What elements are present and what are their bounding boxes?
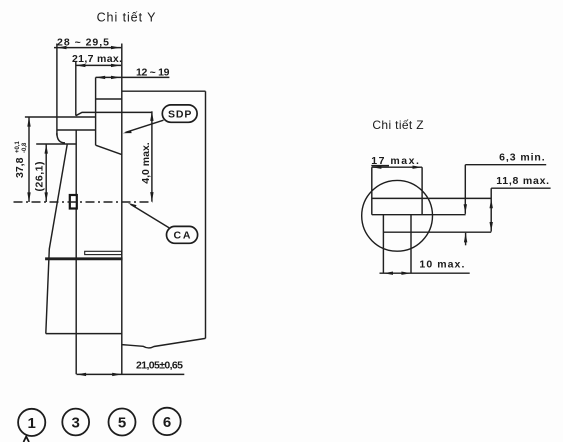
arrow up 6,3 — [464, 233, 467, 243]
small mark below circle 1 — [24, 437, 30, 442]
cap top line — [372, 197, 491, 199]
balloon circle 1 — [18, 409, 45, 436]
dimension (26,1) line — [45, 144, 47, 202]
dimension 6,3 lower tick — [465, 233, 467, 246]
arrow left 17 — [372, 166, 382, 169]
dimension 4,0 max line — [151, 111, 153, 201]
dimension 6,3 vertical line — [464, 165, 466, 214]
column top — [96, 98, 122, 100]
column left edge — [95, 77, 97, 145]
arrow up 4,0 — [150, 111, 153, 121]
extension line left 17 / cap left edge — [371, 167, 373, 215]
dome plane extension line — [36, 143, 76, 145]
cap bottom line — [372, 214, 466, 216]
plate top edge — [122, 90, 206, 92]
arrow left 12~19 — [96, 76, 106, 79]
centerline — [14, 201, 153, 203]
plate bottom edge — [122, 338, 206, 348]
dimension 6,3 shelf line — [465, 164, 546, 166]
arrow down (26,1) — [45, 192, 48, 202]
column taper — [96, 145, 122, 154]
dimension 21,7 max line — [76, 64, 122, 66]
SDP plane line with chamfer — [76, 112, 152, 115]
arrow down 4,0 — [150, 192, 153, 202]
arrow right 21,05 — [112, 373, 122, 376]
thick line — [45, 257, 123, 260]
svg-text:3: 3 — [72, 415, 80, 432]
CA leader line — [131, 204, 170, 228]
extension line 21,7 left — [75, 62, 77, 116]
arrow right 21,7 — [111, 64, 121, 67]
SDP leader line — [126, 120, 164, 132]
lower reference line — [383, 231, 491, 233]
balloon circle 6 — [153, 408, 180, 435]
arrow down 6,3 — [464, 204, 467, 214]
arrow up 11,8 — [490, 199, 493, 209]
arrow left 21,05 — [77, 373, 87, 376]
svg-text:12 ~ 19: 12 ~ 19 — [136, 66, 170, 78]
pin column left edge — [382, 215, 384, 274]
dimension 10 max line — [380, 272, 470, 274]
dimension (26,1) text rotated — [34, 162, 46, 192]
balloon circle 3 — [62, 409, 89, 436]
svg-text:5: 5 — [118, 415, 126, 432]
svg-text:SDP: SDP — [168, 108, 192, 120]
CA leader arrowhead — [128, 203, 137, 208]
svg-text:11,8 max.: 11,8 max. — [496, 175, 549, 187]
svg-text:(26,1): (26,1) — [34, 162, 46, 192]
extension line right 17 / cap right edge — [421, 167, 423, 215]
thin spring rectangle — [85, 251, 122, 254]
bulb dome arc — [57, 133, 65, 143]
dimension 11,8 vertical line — [490, 188, 492, 231]
ledge top line — [25, 116, 96, 118]
svg-text:37,8: 37,8 — [14, 157, 26, 178]
svg-text:6: 6 — [163, 414, 171, 431]
inner vertical body edge — [75, 130, 77, 374]
svg-text:-0,8: -0,8 — [22, 142, 28, 153]
svg-text:Chi tiết Y: Chi tiết Y — [97, 11, 157, 25]
dimension 28~29,5 line — [54, 47, 121, 49]
arrow right 10 — [401, 272, 411, 275]
SDP leader arrowhead — [123, 130, 132, 133]
arrow right 28~29,5 — [111, 46, 121, 49]
svg-text:6,3 min.: 6,3 min. — [499, 151, 545, 163]
arrow left 21,7 — [76, 64, 86, 67]
arrow left 10 — [383, 272, 393, 275]
svg-text:21,05±0,65: 21,05±0,65 — [136, 360, 183, 372]
svg-text:1: 1 — [28, 415, 36, 432]
dimension 37,8 line — [28, 117, 30, 202]
dimension 11,8 shelf line — [491, 187, 550, 189]
dimension 21,05 line — [77, 373, 185, 375]
dimension 12~19 line — [96, 76, 170, 78]
arrow right 12~19 — [111, 76, 121, 79]
plate right edge — [205, 91, 207, 338]
arrow up (26,1) — [45, 144, 48, 154]
extension line right / plate left edge — [121, 44, 123, 375]
pin rectangle — [70, 195, 77, 209]
svg-text:Chi tiết Z: Chi tiết Z — [372, 118, 423, 132]
svg-text:21,7 max.: 21,7 max. — [72, 53, 122, 65]
ledge bottom line — [57, 129, 96, 131]
svg-text:10 max.: 10 max. — [419, 259, 464, 271]
skirt outer edge — [46, 145, 67, 334]
SDP oval — [162, 105, 197, 122]
arrow down 37,8 — [27, 192, 30, 202]
tube circle — [362, 180, 433, 251]
dimension 37,8 text rotated — [14, 140, 28, 178]
extension line left 28~29,5 / bulb edge — [56, 44, 58, 136]
arrow down 11,8 — [490, 222, 493, 232]
balloon circle 5 — [109, 409, 136, 436]
svg-text:+0,1: +0,1 — [15, 140, 21, 153]
arrow up 37,8 — [27, 117, 30, 127]
dimension 17 max line — [372, 166, 422, 168]
underline under 17 — [371, 165, 389, 167]
pin column right edge — [410, 215, 412, 274]
CA oval — [167, 226, 198, 243]
svg-text:CA: CA — [174, 230, 191, 242]
body bottom line — [46, 333, 122, 335]
dimension 4,0 max text rotated — [140, 142, 152, 184]
arrow left 28~29,5 — [57, 46, 67, 49]
arrow right 17 — [413, 166, 423, 169]
svg-text:4,0 max.: 4,0 max. — [140, 142, 152, 184]
